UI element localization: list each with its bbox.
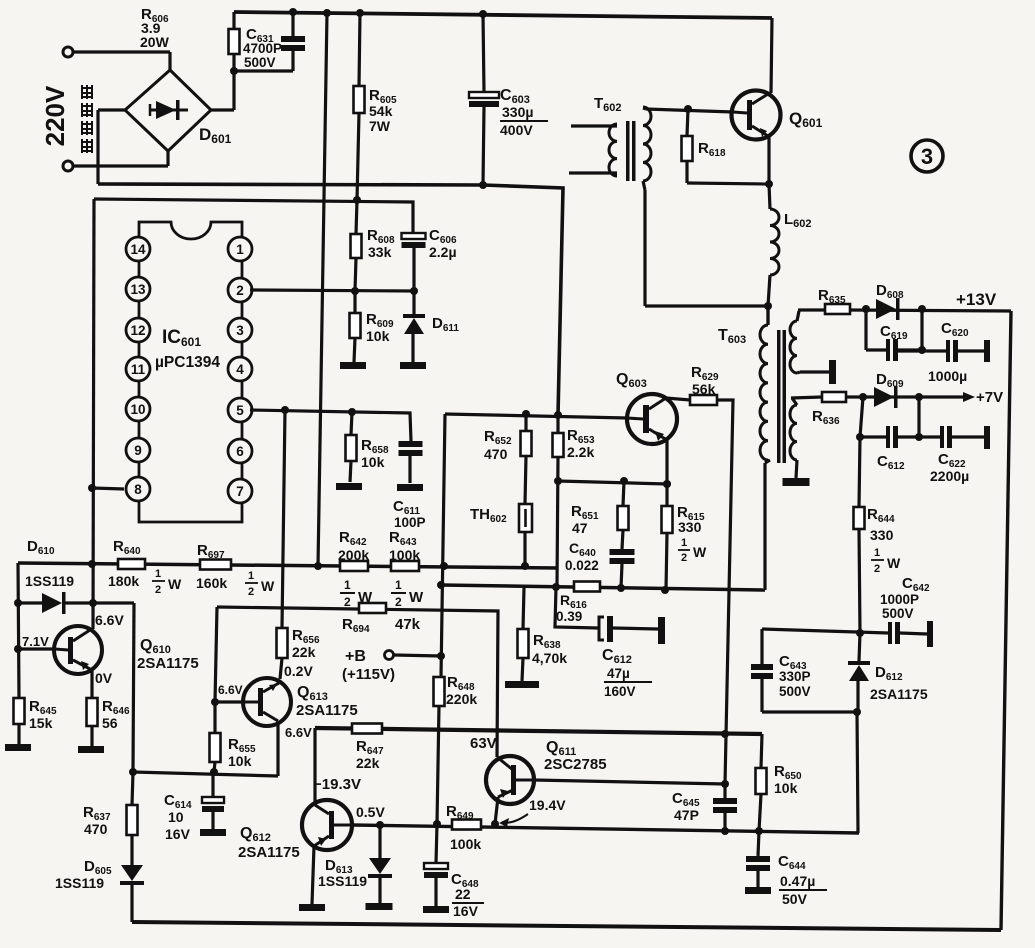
transistor Q610 [54, 626, 102, 674]
junction emitter/R615 line [663, 480, 671, 488]
label R694 47k [342, 616, 421, 635]
wire DC-minus rail (bridge to C603 and down) [98, 184, 563, 415]
svg-text:6.6V: 6.6V [285, 725, 312, 740]
transistor Q603 [627, 394, 677, 444]
junction R606/C631 [230, 67, 238, 75]
svg-text:2: 2 [681, 552, 687, 564]
junction D608 anode [862, 305, 870, 313]
wire upper secondary bottom [797, 372, 829, 373]
wire C614 node line [133, 772, 278, 776]
svg-text:W: W [261, 578, 275, 594]
junction D609 cathode [915, 393, 923, 401]
svg-text:16V: 16V [165, 826, 191, 842]
svg-text:1: 1 [395, 578, 402, 592]
resistor R615 [662, 484, 673, 590]
wire D610 line corner down to R637 [133, 603, 134, 772]
pin 9 IC601 [126, 438, 150, 462]
junction R616/R653 bottom [552, 583, 560, 591]
wire Q613 base [215, 700, 244, 703]
svg-text:13: 13 [130, 282, 146, 297]
transformer T603 primary [760, 306, 768, 460]
resistor R616 [574, 582, 600, 592]
wire Q613 collector down [276, 721, 279, 776]
diode D612 [848, 633, 870, 712]
svg-text:2SA1175: 2SA1175 [238, 844, 300, 861]
svg-text:330µ: 330µ [502, 104, 533, 120]
zener D611 [403, 291, 425, 362]
svg-text:470: 470 [484, 446, 508, 462]
svg-text:7: 7 [236, 484, 244, 499]
ground C614 [200, 829, 226, 836]
junction D610 cathode/pin8 vertical [89, 599, 97, 607]
resistor R618 [682, 109, 693, 183]
label Q613 [297, 684, 328, 703]
svg-text:500V: 500V [882, 606, 914, 621]
junction +B/vertical [437, 652, 445, 660]
svg-text:0.47µ: 0.47µ [780, 873, 815, 889]
svg-text:14: 14 [130, 242, 146, 257]
resistor R656 [277, 628, 288, 679]
resistor R643 [391, 561, 419, 571]
svg-text:4700P: 4700P [243, 41, 282, 56]
label R658 10k [361, 437, 389, 470]
capacitor C612 (+7V filter) [860, 397, 940, 448]
svg-text:2SA1175: 2SA1175 [870, 686, 928, 702]
transformer T603 secondary upper [790, 311, 799, 373]
transistor Q613 [243, 678, 291, 726]
svg-text:2.2k: 2.2k [567, 444, 594, 460]
label L602 [784, 211, 812, 230]
svg-text:1: 1 [344, 578, 351, 592]
svg-text:1SS119: 1SS119 [318, 873, 367, 889]
label C642 1000P 500V [880, 575, 930, 621]
junction R640 line/long vertical [314, 562, 322, 570]
label D608 [876, 282, 904, 301]
label C612 47u 160V [602, 647, 652, 699]
diode D605 [120, 865, 144, 922]
svg-text:2SA1175: 2SA1175 [296, 702, 358, 719]
label R656 22k [292, 627, 320, 660]
junction D613 top [376, 821, 384, 829]
junction Q611 base node [721, 780, 729, 788]
svg-text:3: 3 [236, 323, 244, 338]
resistor R646 [87, 698, 98, 746]
junction C619/C620 [918, 346, 926, 354]
junction C644 top [755, 827, 763, 835]
svg-text:330P: 330P [779, 669, 811, 684]
pin 10 IC601 [126, 397, 150, 421]
pin 2 IC601 [228, 278, 252, 302]
capacitor C614 [202, 772, 224, 829]
label 0.5V [356, 804, 385, 820]
svg-text:8: 8 [134, 482, 142, 497]
wire R694 corner to base node [215, 607, 217, 702]
resistor R640 [118, 559, 145, 569]
IC U601 uPC1394 body [139, 222, 242, 522]
junction R651 top [620, 477, 628, 485]
svg-text:20W: 20W [140, 34, 170, 50]
label R697 160k 1/2W [196, 542, 275, 598]
wire pin8 line [92, 488, 124, 489]
wire pin5 line [250, 410, 411, 441]
svg-text:22: 22 [455, 886, 471, 902]
svg-text:2: 2 [236, 283, 244, 298]
svg-text:2: 2 [248, 586, 254, 598]
transistor Q611 [486, 756, 534, 804]
wire right border (+13V down) [1001, 311, 1011, 930]
junction rail/C631 [289, 8, 297, 16]
junction TH602/R642 line [521, 562, 529, 570]
svg-text:2SA1175: 2SA1175 [137, 655, 199, 672]
label R608 33k [367, 227, 395, 260]
junction C612 left [856, 433, 864, 441]
wire bottom rail [132, 922, 1001, 930]
label 0V [95, 670, 113, 686]
resistor R609 [350, 291, 361, 362]
junction R649 node [433, 820, 441, 828]
wire output node line [352, 825, 859, 833]
label R606 3.9 20W [140, 6, 170, 50]
svg-text:47: 47 [572, 520, 588, 536]
junction rail/R605 [356, 9, 364, 17]
junction C640/R616 line [617, 584, 625, 592]
pin 12 IC601 [126, 318, 150, 342]
svg-text:2: 2 [155, 584, 161, 596]
svg-text:7.1V: 7.1V [22, 634, 49, 649]
capacitor C620 [898, 340, 990, 362]
svg-text:0.39: 0.39 [556, 609, 582, 624]
label R651 47 [571, 503, 599, 536]
label R647 22k [356, 738, 384, 771]
transformer T602 [569, 107, 651, 181]
ground R638 [505, 681, 539, 688]
svg-text:15k: 15k [29, 715, 53, 731]
label R609 10k [366, 311, 394, 344]
wire C643-D612 bottom [762, 710, 857, 713]
wire R640-R643 line [18, 563, 558, 568]
wire lower secondary bottom [796, 460, 797, 478]
wire junction row to R637 [129, 768, 137, 805]
svg-text:−19.3V: −19.3V [313, 776, 361, 793]
resistor R645 [14, 698, 25, 744]
diode D609 [874, 386, 898, 408]
ground Q612 [299, 904, 325, 911]
label 19.4V with arrow [499, 797, 566, 827]
svg-text:470: 470 [84, 821, 108, 837]
wire R650 drop [761, 734, 762, 768]
resistor R605 [354, 13, 365, 200]
wire R694 line [217, 607, 498, 757]
svg-text:33k: 33k [368, 244, 392, 260]
label 2SA1175 (Q610) [137, 655, 199, 672]
svg-text:100k: 100k [450, 836, 481, 852]
svg-text:7W: 7W [369, 118, 391, 134]
label C644 0.47u 50V [778, 853, 827, 907]
wire Q612 collector to ground [312, 846, 314, 904]
svg-text:54k: 54k [369, 103, 393, 119]
wire left bias vertical [18, 563, 19, 698]
label TH602 [470, 506, 507, 525]
junction R653/emitter line [554, 477, 562, 485]
label R616 0.39 [556, 592, 587, 624]
label 63V [470, 735, 497, 752]
pin 5 IC601 [228, 398, 252, 422]
wire T602 right coil down [643, 181, 768, 306]
svg-text:9: 9 [134, 443, 142, 458]
wire +B vertical [441, 414, 445, 677]
junction rail/C603 [479, 10, 487, 18]
wire Q610 emitter down [90, 669, 92, 698]
svg-text:100k: 100k [389, 547, 420, 563]
wire R644 riser [859, 397, 863, 507]
junction R616/R615 bottom [661, 586, 669, 594]
wire L602 to T603 primary [768, 275, 770, 325]
svg-text:330: 330 [678, 519, 702, 535]
label 6.6V (Q613 base) [218, 683, 243, 697]
svg-text:330: 330 [870, 527, 894, 543]
junction pin5/R658 [348, 408, 356, 416]
label 0.2V [284, 663, 313, 679]
capacitor C606 [402, 233, 426, 291]
svg-text:1SS119: 1SS119 [25, 573, 74, 589]
ground lower secondary [783, 478, 810, 486]
label R646 56 [102, 698, 130, 731]
svg-text:11: 11 [131, 362, 146, 377]
svg-text:2200µ: 2200µ [930, 468, 969, 484]
wire R618 to emitter [687, 183, 769, 184]
svg-text:19.4V: 19.4V [529, 797, 566, 813]
pin 13 IC601 [126, 277, 150, 301]
pin 11 IC601 [126, 357, 150, 381]
pin 6 IC601 [228, 439, 252, 463]
junction R640 line/left frame [88, 560, 96, 568]
svg-text:220V: 220V [40, 85, 70, 146]
svg-text:160k: 160k [196, 575, 227, 591]
svg-text:500V: 500V [779, 684, 811, 699]
junction pin2/C606-D611 [410, 287, 418, 295]
label 1000u [928, 368, 967, 384]
label Q603 [616, 371, 647, 390]
label Q610 [140, 637, 171, 656]
wire bridge left corner to DC-minus rail [98, 110, 125, 184]
svg-text:10k: 10k [366, 328, 390, 344]
svg-text:47P: 47P [674, 807, 699, 823]
svg-text:220k: 220k [446, 691, 477, 707]
ground R645 [5, 744, 31, 751]
diode D608 [876, 298, 900, 320]
wire C642 line [762, 629, 888, 633]
svg-text:16V: 16V [453, 903, 479, 919]
svg-text:22k: 22k [292, 644, 316, 660]
resistor R651 [618, 481, 629, 549]
resistor R658 [346, 412, 357, 482]
svg-text:0V: 0V [95, 670, 113, 686]
svg-text:0.5V: 0.5V [356, 804, 385, 820]
resistor R637 [127, 805, 138, 865]
label R643 100k 1/2W [389, 529, 424, 609]
ground R609 [340, 362, 366, 369]
transformer T603 secondary lower [790, 398, 797, 460]
label +13V [956, 290, 997, 309]
label T602 [594, 95, 622, 114]
svg-text:W: W [409, 589, 424, 606]
label C643 330P 500V [779, 653, 811, 699]
junction pin2/R608-R609 [351, 287, 359, 295]
junction emitter/R618 wire [765, 180, 773, 188]
ground C644 [745, 887, 771, 894]
label R655 10k [228, 736, 256, 769]
label C612 (+7V) [877, 453, 905, 472]
svg-text:W: W [887, 555, 901, 571]
terminal +B [385, 651, 442, 660]
label 7.1V [22, 634, 49, 649]
svg-text:1000P: 1000P [880, 592, 919, 607]
wire pin5 vertical down to R656 [282, 410, 285, 628]
label R653 2.2k [567, 427, 595, 460]
svg-text:47µ: 47µ [607, 666, 630, 681]
label R644 330 1/2W [867, 506, 901, 575]
resistor R629 [690, 395, 717, 405]
svg-text:200k: 200k [338, 547, 369, 563]
resistor R636 [822, 392, 846, 402]
label R649 100k [446, 803, 481, 852]
label +B (+115V) [342, 648, 395, 683]
svg-text:1: 1 [874, 547, 880, 559]
label C606 2.2u [429, 227, 457, 260]
junction D612 bottom [853, 708, 861, 716]
chassis bar upper secondary [829, 360, 836, 384]
resistor R653 [553, 415, 564, 586]
label Q611 [546, 739, 576, 758]
svg-text:+7V: +7V [976, 389, 1003, 406]
bridge rectifier D601 [125, 52, 211, 166]
wire D612 node down [857, 712, 858, 833]
svg-text:100P: 100P [394, 515, 426, 530]
resistor R608 [351, 200, 362, 291]
junction R644/D612/C642 [856, 629, 864, 637]
wire primary return riser [765, 460, 770, 590]
junction D608 cathode [918, 305, 926, 313]
junction pin8/left frame [88, 484, 96, 492]
svg-text:6: 6 [236, 444, 244, 459]
label R636 [812, 408, 840, 427]
svg-text:56k: 56k [692, 381, 716, 397]
transformer T603 core [777, 330, 786, 463]
svg-text:63V: 63V [470, 735, 497, 752]
capacitor C640 [610, 549, 635, 588]
AC input terminal top [63, 47, 170, 57]
svg-text:50V: 50V [782, 891, 808, 907]
resistor R649 [452, 820, 481, 830]
label D610 [27, 538, 55, 557]
svg-text:0.2V: 0.2V [284, 663, 313, 679]
circled 3 page marker [911, 140, 943, 172]
label 1SS119 (D610) [25, 573, 74, 589]
capacitor C622 [940, 426, 990, 449]
label -19.3V [313, 776, 361, 793]
svg-text:1: 1 [681, 537, 687, 549]
resistor R638 [518, 588, 529, 681]
svg-text:2: 2 [344, 595, 351, 609]
label 6.6V (Q610 collector) [95, 612, 124, 628]
junction R616 line start [437, 581, 445, 589]
label 2SA1175 (Q612) [238, 844, 300, 861]
label C611 100P [393, 498, 426, 530]
wire Q603 collector [666, 398, 690, 400]
svg-text:6.6V: 6.6V [218, 683, 243, 697]
wire Q611 emitter down [495, 797, 498, 824]
label C631 4700P 500V [243, 26, 282, 70]
label R642 200k 1/2W [338, 529, 373, 609]
wire top +300V rail [234, 12, 772, 18]
label R640 180k 1/2W [108, 538, 182, 596]
svg-text:2.2µ: 2.2µ [429, 244, 457, 260]
capacitor C631 [234, 12, 305, 71]
resistor R606 [229, 12, 240, 71]
label 1SS119 (D605) [55, 875, 104, 891]
wire +7V line [791, 397, 963, 398]
label R615 330 1/4W [677, 504, 707, 564]
capacitor C642 [888, 621, 933, 647]
svg-text:160V: 160V [604, 684, 636, 699]
label R618 [698, 140, 726, 159]
wire 7.1V base wire [18, 647, 55, 650]
capacitor C645 [713, 784, 737, 831]
ground R646 [78, 746, 104, 753]
pin 3 IC601 [228, 318, 252, 342]
svg-text:6.6V: 6.6V [95, 612, 124, 628]
AC input terminal bottom [63, 161, 168, 171]
label R635 [818, 287, 846, 306]
pin 8 IC601 [126, 477, 150, 501]
svg-text:3: 3 [921, 144, 933, 169]
capacitor C611 [399, 441, 423, 483]
svg-text:1: 1 [155, 568, 161, 580]
junction rail/startup line [323, 9, 331, 17]
pin 1 IC601 [228, 237, 252, 261]
transistor Q612 [302, 800, 352, 850]
svg-text:+B: +B [345, 648, 366, 665]
label C619 [880, 323, 908, 342]
wire left frame vertical [93, 199, 94, 629]
svg-text:4,70k: 4,70k [532, 650, 567, 666]
label D601 [199, 125, 232, 146]
junction base wire/R618 [684, 105, 692, 113]
resistor R650 [756, 768, 767, 831]
svg-text:1SS119: 1SS119 [55, 875, 104, 891]
capacitor C612 (47u 160V) [555, 587, 665, 644]
wire Q601 collector from rail [771, 18, 772, 93]
label R637 470 [83, 804, 111, 837]
label C603 330u 400V [500, 87, 548, 138]
label R650 10k [774, 763, 802, 796]
junction R615 top [663, 480, 671, 488]
svg-text:W: W [168, 576, 182, 592]
label 220V AC mains (rotated) [40, 85, 93, 153]
diode D610 [18, 592, 134, 614]
svg-text:µPC1394: µPC1394 [155, 354, 220, 371]
label D612 2SA1175 [870, 664, 928, 702]
label uPC1394 [155, 354, 220, 371]
resistor R644 [854, 507, 865, 633]
label Q612 [240, 825, 271, 844]
label Q601 [789, 109, 823, 130]
junction Q613 base node [211, 698, 219, 706]
svg-text:400V: 400V [500, 122, 533, 138]
label C614 10 16V [164, 792, 192, 842]
svg-text:500V: 500V [244, 55, 276, 70]
capacitor C643 [751, 629, 773, 712]
